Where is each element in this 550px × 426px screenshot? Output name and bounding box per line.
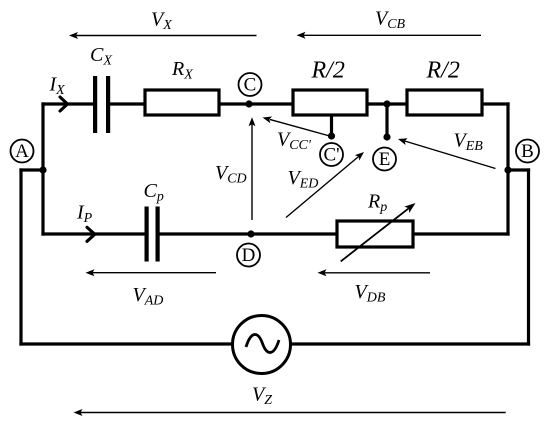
wire top branch: RX to node C to R/2 left — [219, 102, 294, 105]
wire top branch: CX to RX — [109, 102, 146, 105]
svg-text:A: A — [15, 141, 29, 162]
resistor R/2 left — [293, 90, 367, 115]
svg-text:IP: IP — [76, 202, 93, 227]
svg-text:VCC': VCC' — [277, 129, 312, 154]
junction node B — [504, 166, 511, 173]
junction node E — [383, 133, 390, 140]
svg-text:CX: CX — [90, 44, 112, 69]
node label C' — [320, 143, 343, 166]
variable resistor Rp — [337, 203, 416, 261]
wire jog at node A — [21, 168, 43, 171]
wire tap stub to node C' — [330, 114, 333, 136]
wire top branch: A corner to CX — [43, 102, 94, 105]
arrow VCC' — [263, 116, 332, 136]
arrow VAD — [86, 269, 217, 276]
svg-text:C': C' — [323, 145, 339, 166]
wire right inner vertical (top corner to middle branch) — [506, 104, 509, 234]
svg-text:E: E — [379, 149, 391, 170]
node label B — [516, 140, 539, 163]
arrow VX — [69, 32, 257, 39]
arrow VZ (bottom) — [74, 409, 506, 416]
wire left outer vertical — [19, 170, 22, 344]
svg-text:VEB: VEB — [454, 130, 484, 155]
wire bottom left to source — [21, 342, 234, 345]
junction node A — [39, 166, 46, 173]
svg-text:VAD: VAD — [133, 284, 164, 309]
resistor R/2 right — [407, 90, 482, 115]
junction node C — [245, 100, 252, 107]
wire middle branch: A vertical to Cp — [43, 232, 146, 235]
svg-text:D: D — [242, 245, 256, 266]
node label D — [237, 244, 260, 267]
svg-text:B: B — [521, 141, 534, 162]
arrow VDB — [318, 269, 431, 276]
arrow VCB — [297, 32, 482, 39]
svg-text:R/2: R/2 — [311, 58, 345, 84]
svg-text:IX: IX — [49, 74, 66, 99]
wire right outer vertical — [527, 170, 530, 344]
svg-text:Rp: Rp — [367, 191, 387, 216]
wire left inner vertical (top corner to middle branch) — [41, 104, 44, 234]
svg-text:Cp: Cp — [144, 180, 164, 205]
node label C — [239, 73, 262, 96]
node label A — [11, 140, 34, 163]
svg-text:VZ: VZ — [252, 384, 272, 409]
junction between R/2 resistors — [383, 100, 390, 107]
svg-text:VDB: VDB — [355, 281, 386, 306]
wire stub to node E — [385, 104, 388, 137]
capacitor CX — [93, 76, 110, 133]
svg-text:C: C — [244, 75, 257, 96]
wire middle branch: Rp to right vertical — [412, 232, 508, 235]
AC source VZ — [233, 316, 291, 374]
svg-text:R/2: R/2 — [426, 58, 460, 84]
wire jog at node B — [508, 168, 529, 171]
current arrow IP — [87, 227, 95, 241]
svg-text:VX: VX — [151, 9, 172, 34]
capacitor Cp — [145, 207, 160, 262]
wire bottom right from source — [291, 342, 529, 345]
wire top branch: R/2 left to R/2 right through junction E — [366, 102, 408, 105]
arrow VCD — [249, 117, 256, 220]
junction node D — [247, 230, 254, 237]
wire top branch: R/2 right to top-right corner — [481, 102, 508, 105]
arrow VEB — [398, 138, 496, 168]
svg-text:RX: RX — [171, 58, 193, 83]
svg-text:VCB: VCB — [375, 8, 406, 33]
current arrow IX — [60, 97, 68, 111]
wire middle branch: Cp to node D to Rp — [158, 232, 338, 235]
junction node C' — [328, 132, 335, 139]
svg-text:VED: VED — [288, 167, 319, 192]
svg-text:VCD: VCD — [215, 162, 247, 187]
node label E — [373, 148, 396, 171]
arrow VED — [286, 152, 364, 218]
resistor RX — [145, 90, 219, 115]
